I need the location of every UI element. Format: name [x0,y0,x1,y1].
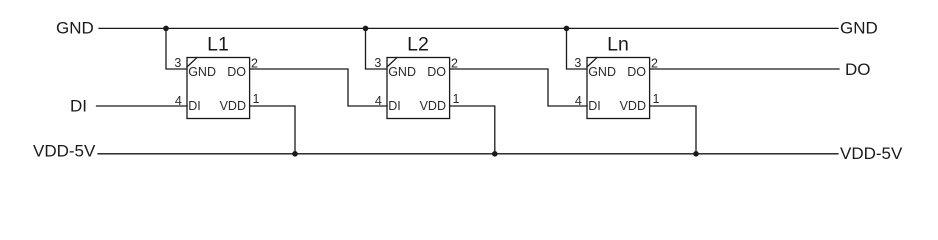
svg-text:GND: GND [588,65,616,79]
svg-text:Ln: Ln [607,34,629,56]
svg-text:L1: L1 [207,34,229,56]
component L2 body [387,58,450,119]
svg-text:VDD-5V: VDD-5V [840,144,903,163]
svg-text:2: 2 [651,57,658,71]
wire GND drop to Ln pin 3 [567,28,588,69]
junction GND rail / L2 [363,26,369,32]
svg-text:DO: DO [845,60,871,79]
svg-text:4: 4 [175,94,182,108]
wire L1 DO to L2 DI [250,69,387,106]
svg-text:3: 3 [374,56,381,70]
svg-text:VDD: VDD [220,99,246,113]
wire Ln DO output [650,68,839,70]
chamfer mark L1 [187,58,197,68]
component Ln body [587,58,650,119]
svg-text:GND: GND [388,65,416,79]
svg-text:1: 1 [453,92,460,106]
svg-text:DO: DO [627,65,646,79]
wire L2 DO to Ln DI [450,69,587,106]
svg-text:VDD-5V: VDD-5V [33,142,96,161]
wire DI to L1 pin 4 [97,105,188,107]
svg-text:DI: DI [388,99,401,113]
svg-text:1: 1 [653,92,660,106]
svg-text:VDD: VDD [420,99,446,113]
svg-text:DI: DI [188,99,201,113]
svg-text:DI: DI [70,97,87,116]
svg-text:GND: GND [188,65,216,79]
component L1 body [187,58,250,119]
wire GND drop to L2 pin 3 [366,28,388,69]
wire Ln VDD to rail [650,106,696,154]
svg-text:L2: L2 [407,34,429,56]
junction GND rail / L1 [163,26,169,32]
junction VDD rail / Ln [693,151,699,157]
svg-text:1: 1 [253,92,260,106]
wire GND rail [99,27,838,29]
chamfer mark Ln [587,58,597,68]
wire VDD-5V rail [98,153,838,155]
chamfer mark L2 [387,58,397,68]
junction VDD rail / L2 [492,151,498,157]
junction VDD rail / L1 [292,151,298,157]
svg-text:DI: DI [588,99,601,113]
junction GND rail / Ln [564,26,570,32]
wire L1 VDD to rail [250,106,295,154]
wire L2 VDD to rail [450,106,495,154]
svg-text:DO: DO [227,65,246,79]
wire GND drop to L1 pin 3 [166,28,187,69]
svg-text:VDD: VDD [620,99,646,113]
svg-text:4: 4 [375,94,382,108]
svg-text:3: 3 [174,56,181,70]
svg-text:DO: DO [427,65,446,79]
svg-text:4: 4 [575,94,582,108]
svg-text:GND: GND [840,19,878,38]
svg-text:3: 3 [574,56,581,70]
svg-text:GND: GND [56,19,94,38]
